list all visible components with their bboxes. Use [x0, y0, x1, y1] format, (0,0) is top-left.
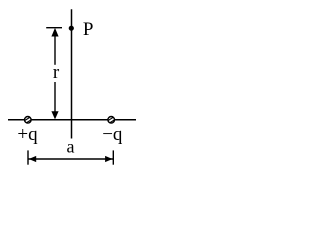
svg-text:r: r: [53, 62, 60, 83]
r-dimension bottom arrowhead: [51, 111, 58, 119]
svg-text:−q: −q: [102, 124, 123, 145]
svg-text:P: P: [83, 19, 94, 40]
charge -q symbol: [107, 115, 117, 124]
wire vertical axis: [71, 9, 73, 138]
a-dimension right tick: [112, 150, 114, 164]
svg-text:+q: +q: [17, 124, 38, 145]
a-dimension right arrowhead: [105, 156, 112, 162]
wire a-dimension line: [28, 158, 113, 160]
r-dimension top arrowhead: [51, 28, 58, 37]
a-dimension left tick: [27, 150, 29, 164]
wire r-dimension lower segment: [54, 82, 56, 116]
wire horizontal line through charges: [8, 119, 136, 121]
wire r-dimension cap bar: [46, 27, 62, 29]
node P dot: [69, 26, 74, 31]
a-dimension left arrowhead: [29, 156, 36, 162]
wire r-dimension upper segment: [54, 30, 56, 65]
svg-text:a: a: [67, 137, 75, 157]
charge +q symbol: [24, 115, 34, 124]
